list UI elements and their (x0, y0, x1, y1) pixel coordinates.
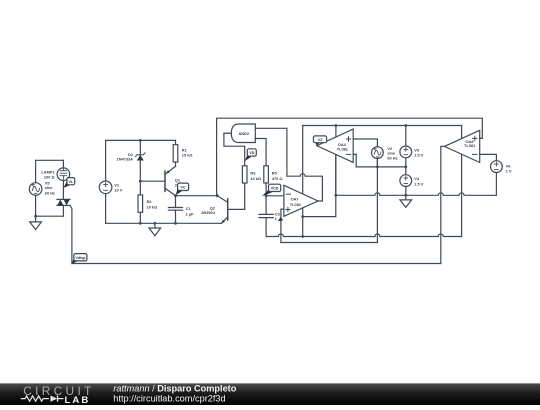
junction OA7 V- on rail A (301, 235, 304, 238)
svg-text:VD: VD (249, 151, 254, 155)
junction ground rail start (334, 194, 337, 197)
wire bottom middle rail (106, 222, 222, 224)
triac T1 (57, 199, 70, 205)
ground (middle block) (149, 223, 161, 235)
wire V1 bottom (105, 194, 107, 224)
wire V4 bottom (405, 187, 407, 196)
LAMP1 value label (41, 170, 55, 180)
svg-text:1 µF: 1 µF (186, 212, 194, 217)
R2 value label (147, 199, 158, 209)
lamp LAMP1 (57, 168, 70, 181)
flag VZ (313, 136, 326, 146)
flag VL (63, 178, 74, 188)
transistor Q2 2N3904 (NPN mirrored) (217, 196, 245, 224)
capacitor C3 (259, 196, 273, 237)
svg-text:C1: C1 (186, 206, 192, 211)
wire V1 top (105, 140, 107, 181)
voltage source V1 10V (99, 181, 112, 194)
V1 value label (114, 182, 122, 192)
svg-text:OA7: OA7 (291, 196, 299, 201)
wire bottom left block (36, 215, 64, 217)
junction OA4 V+ pin (335, 124, 338, 127)
Q1 value label (175, 177, 189, 187)
wire V- link to ground rail (303, 155, 336, 217)
ground (left block) (30, 216, 42, 229)
wire top left block (36, 159, 64, 161)
flag VC (176, 183, 189, 195)
logo diode (50, 396, 63, 402)
junction OA7 minus node (265, 194, 268, 197)
svg-text:R1: R1 (182, 147, 188, 152)
wire R5 bottom to OA7 minus node (265, 183, 267, 196)
wire AND2 output to R3 top (224, 133, 245, 166)
R3 value label (250, 171, 261, 181)
junction D1 top (139, 139, 142, 142)
wire rail A (V- net) (266, 234, 462, 237)
wire OA7 minus input stub (266, 195, 284, 197)
svg-text:1N4733A: 1N4733A (117, 157, 134, 162)
wire Q1 collector to Q2 (176, 195, 218, 197)
svg-text:V1: V1 (114, 182, 120, 187)
ground (right block) (400, 195, 412, 207)
svg-text:sine: sine (45, 185, 54, 190)
zener diode D1 1N4733A (135, 140, 145, 181)
voltage source V4 2.5V (400, 175, 412, 187)
junction R2 bottom (139, 222, 142, 225)
svg-text:Vdisp: Vdisp (75, 256, 86, 260)
resistor R1 15k (173, 140, 178, 166)
wire V3 top (405, 126, 407, 147)
svg-text:AND2: AND2 (238, 131, 249, 136)
wire lamp to triac (62, 180, 64, 199)
svg-text:LAB: LAB (65, 395, 91, 405)
voltage source V2 (sine 60Hz) (372, 147, 384, 159)
C3 value label (275, 212, 281, 222)
voltage source V6 1V (491, 161, 503, 173)
junction top-rail drop (216, 194, 219, 197)
wire V+ rail (303, 125, 462, 127)
svg-text:1 V: 1 V (506, 168, 512, 173)
V5 value label (45, 180, 55, 195)
svg-text:R2: R2 (147, 199, 153, 204)
junction Q1 collector node (174, 194, 177, 197)
op-amp OA7 TL081 (284, 185, 318, 216)
svg-text:2N3904: 2N3904 (201, 210, 215, 215)
junction V4/ground on rail (404, 194, 407, 197)
flag VCD (262, 184, 281, 196)
voltage source V3 2.5V (400, 146, 412, 158)
svg-text:VZ: VZ (318, 138, 323, 142)
wire triac bottom (62, 205, 64, 216)
svg-text:rattmann / Disparo Completo: rattmann / Disparo Completo (113, 384, 236, 394)
svg-text:TL081: TL081 (464, 143, 476, 148)
wire V2 bottom (VZ net) (376, 159, 378, 167)
svg-text:10 kΩ: 10 kΩ (147, 204, 158, 209)
svg-text:TL081: TL081 (337, 147, 349, 152)
op-amp OA4 TL081 (mirrored) (317, 129, 353, 162)
wire OA8 V+ pin (461, 126, 463, 139)
capacitor C1 1uF (168, 196, 182, 224)
wire AND2 input A (from OA7 feedback) (255, 127, 287, 129)
OA4 name label (337, 142, 349, 152)
wire OA7 V- pin (302, 208, 304, 237)
junction OA7 V- link (301, 215, 304, 218)
wire OA4 V- pin to ground rail (335, 155, 337, 196)
junction C1 bottom (174, 222, 177, 225)
svg-text:15 kΩ: 15 kΩ (182, 153, 193, 158)
wire AND2 input B (to R5 top) (255, 139, 266, 166)
svg-text:2.5 V: 2.5 V (414, 153, 423, 158)
junction V3/V4 mid node (404, 166, 407, 169)
V2 value label (387, 146, 397, 161)
AND gate AND2 (mirrored, output left) (231, 124, 255, 143)
D1 value label (117, 152, 134, 162)
junction ground tee (154, 222, 157, 225)
OA8 name label (464, 139, 476, 148)
logo resistor zigzag (21, 396, 49, 401)
wire V5 top (35, 160, 37, 182)
wire Q2 base to R3 (244, 183, 246, 209)
V3 value label (414, 147, 423, 157)
svg-text:R5: R5 (272, 171, 278, 176)
svg-text:60 Hz: 60 Hz (387, 156, 397, 161)
svg-text:R3: R3 (250, 171, 256, 176)
OA7 name label (290, 196, 302, 207)
flag Vdisp (72, 254, 87, 264)
voltage source V5 (sine 60Hz) (29, 183, 42, 196)
wire OA4 plus input to V2 (353, 139, 377, 147)
V6 value label (506, 163, 512, 173)
resistor R2 10k (138, 181, 143, 223)
svg-text:http://circuitlab.com/cpr2f3d: http://circuitlab.com/cpr2f3d (113, 394, 225, 404)
wire ground rail (336, 173, 497, 196)
svg-text:60 Hz: 60 Hz (45, 191, 55, 196)
wire OA7 output feedback to AND2 (287, 128, 323, 201)
resistor R5 470 (264, 166, 269, 183)
svg-text:VC: VC (181, 186, 186, 190)
wire V5 bottom (35, 195, 37, 216)
wire OA8 V- pin (461, 154, 463, 236)
junction V5/ground (34, 215, 37, 218)
wire triac gate (70, 205, 72, 263)
wire rail B (OA7+ to VZ net) (281, 158, 378, 242)
svg-text:10 kΩ: 10 kΩ (250, 176, 261, 181)
wire lamp top (62, 160, 64, 168)
wire OA4 V+ pin (335, 126, 337, 138)
wire OA4 minus input (353, 154, 406, 167)
junction VZ net / OA4 minus wire (376, 166, 379, 169)
junction V3 top (404, 124, 407, 127)
flag VD (245, 149, 256, 161)
wire Vdisp net (rail C) (72, 263, 441, 265)
wire top rail (Q2 collector to OA8+) (217, 118, 483, 196)
V4 value label (414, 176, 423, 186)
R1 value label (182, 147, 193, 157)
resistor R3 10k (242, 166, 247, 183)
svg-text:100 Ω: 100 Ω (44, 174, 55, 179)
svg-text:TL081: TL081 (290, 202, 302, 207)
flag tail at OA7 plus input (278, 217, 283, 221)
op-amp OA8 TL081 (mirrored) (445, 130, 480, 162)
transistor Q1 2N3906 (PNP) (140, 166, 175, 195)
Q2 value label (201, 205, 215, 215)
R5 value label (272, 171, 283, 181)
wire V3 bottom to V4 top (405, 158, 407, 175)
C1 value label (186, 206, 194, 216)
svg-text:2.5 V: 2.5 V (414, 181, 423, 186)
svg-text:470 Ω: 470 Ω (272, 176, 283, 181)
wire OA7 V+ pin (302, 126, 304, 194)
svg-text:10 V: 10 V (114, 188, 122, 193)
footer bar (0, 383, 540, 405)
wire OA8 output down to Vdisp rail (441, 146, 445, 263)
wire top middle block (106, 139, 176, 141)
svg-text:VL: VL (68, 180, 73, 184)
wire OA8 plus input stub (480, 137, 483, 139)
svg-text:VCD: VCD (271, 187, 279, 191)
junction D1/R2/base (139, 180, 142, 183)
wire OA7 plus input (281, 209, 284, 242)
wire OA8 minus input to V6 (480, 154, 497, 160)
